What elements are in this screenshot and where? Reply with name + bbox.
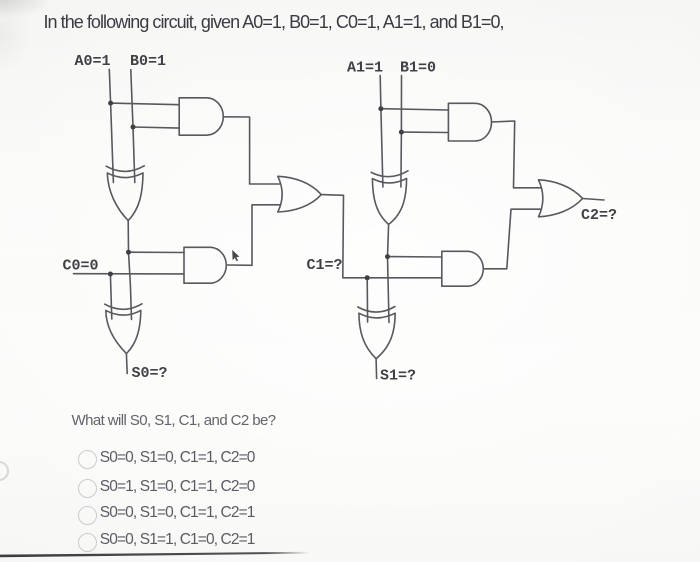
svg-text:S0=?: S0=? — [132, 365, 168, 382]
svg-text:B1=0: B1=0 — [400, 60, 436, 77]
svg-text:C0=0: C0=0 — [63, 258, 99, 275]
svg-text:A0=1: A0=1 — [75, 53, 111, 70]
svg-text:B0=1: B0=1 — [130, 53, 166, 70]
svg-text:C1=?: C1=? — [307, 257, 343, 274]
svg-text:S1=?: S1=? — [380, 367, 416, 384]
svg-text:C2=?: C2=? — [581, 207, 617, 224]
svg-text:A1=1: A1=1 — [347, 60, 383, 77]
